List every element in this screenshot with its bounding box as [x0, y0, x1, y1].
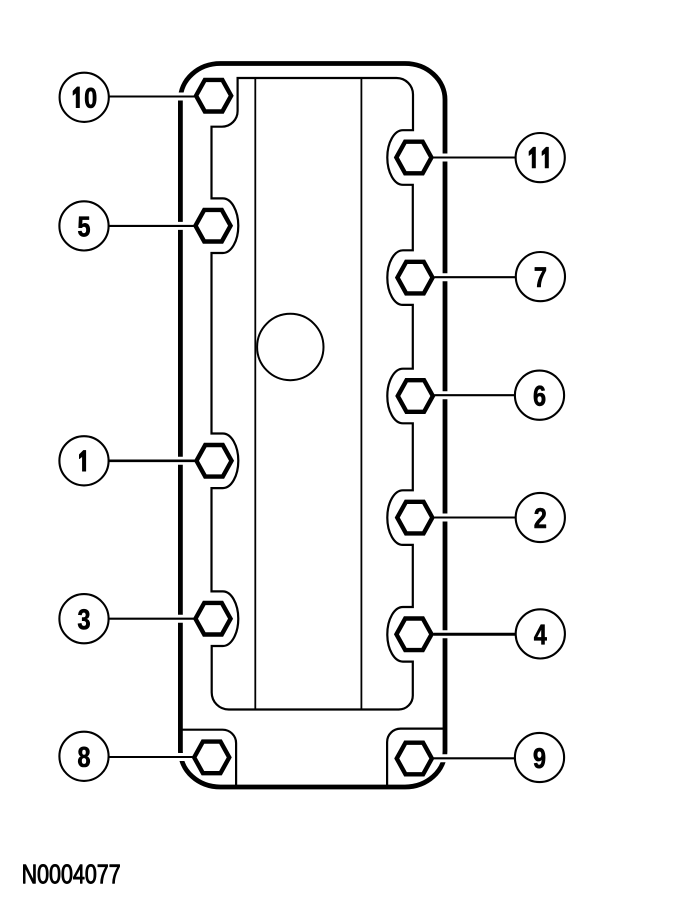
callout circle 1	[59, 436, 108, 485]
leader 2	[435, 516, 516, 518]
bolt 9 corner boss	[387, 729, 444, 786]
hex bolts	[194, 80, 433, 774]
number 5	[78, 217, 90, 237]
bolt 1	[196, 445, 231, 477]
callout circles	[59, 73, 565, 782]
inner flange outline with bolt bosses	[212, 78, 414, 710]
number 4	[534, 625, 547, 645]
callout circle 9	[515, 733, 564, 782]
callout numbers	[73, 87, 549, 768]
central raised section right line	[360, 78, 362, 710]
leader 7	[435, 276, 516, 278]
bolt 3	[195, 603, 230, 635]
callout circle 6	[515, 371, 564, 420]
callout circle 11	[516, 133, 565, 182]
number 2	[535, 508, 546, 528]
bolt 9	[397, 743, 432, 775]
bolt 5	[195, 210, 230, 242]
figure number N0004077	[23, 864, 119, 883]
number 1	[79, 450, 86, 471]
bolt 10	[196, 80, 231, 112]
bolt 6	[398, 380, 433, 412]
number 11	[529, 147, 549, 168]
callout circle 4	[516, 609, 565, 658]
leader 9	[434, 757, 516, 759]
callout circle 8	[59, 732, 108, 781]
bolt 8 corner boss	[181, 730, 236, 786]
oil cap circle	[257, 314, 323, 380]
callout circle 7	[516, 252, 565, 301]
leader casings	[106, 97, 518, 759]
bolt 7	[397, 262, 432, 294]
leader 11	[433, 156, 516, 158]
bolt 2	[397, 502, 432, 534]
callout circle 10	[60, 73, 109, 122]
valve cover outer outline	[180, 64, 445, 788]
number 3	[78, 609, 90, 629]
leader 1	[109, 459, 196, 462]
number 10	[73, 87, 96, 108]
callout circle 2	[516, 493, 565, 542]
number 9	[534, 748, 545, 768]
bolt 8	[194, 742, 229, 774]
central raised section left line	[254, 78, 256, 710]
leader 5	[109, 225, 195, 227]
leader 10	[109, 95, 196, 97]
number 8	[78, 747, 90, 767]
number 6	[534, 386, 545, 406]
leader 6	[435, 394, 516, 396]
leader 3	[109, 618, 195, 620]
bolt 11	[396, 142, 431, 174]
leader 8	[108, 756, 193, 758]
number 7	[535, 267, 546, 287]
callout circle 5	[59, 201, 108, 250]
leader 4	[434, 633, 516, 636]
callout circle 3	[59, 594, 108, 643]
bolt 4	[396, 619, 431, 651]
leader lines	[108, 97, 515, 759]
